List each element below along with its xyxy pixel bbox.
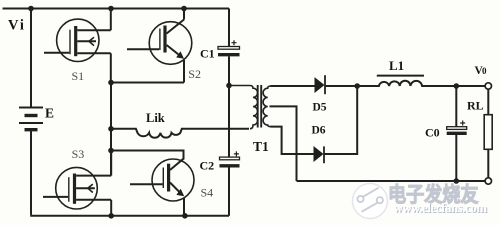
resistor RL: [484, 115, 492, 150]
svg-text:Vi: Vi: [8, 18, 26, 34]
wire secondary top to D5: [271, 85, 315, 87]
svg-text:C2: C2: [200, 159, 215, 173]
svg-text:D6: D6: [312, 125, 326, 137]
wire battery bottom lead: [30, 130, 32, 215]
capacitor C0: [447, 121, 467, 134]
wire RL top lead: [487, 89, 489, 114]
wire secondary center tap: [270, 106, 297, 181]
wire battery top lead: [30, 9, 32, 108]
wire C1 top lead: [228, 9, 230, 47]
wire S4 emitter drop: [183, 198, 185, 216]
terminal Vo negative: [485, 178, 491, 184]
svg-text:RL: RL: [467, 99, 484, 113]
transformer T1 primary: [229, 86, 258, 129]
wire D6 cathode riser: [324, 86, 357, 154]
wire C0 bottom lead: [455, 135, 457, 181]
wire D5 cathode to node: [325, 85, 357, 87]
wire bottom rail: [30, 215, 229, 217]
node C0 bottom junction: [454, 178, 460, 184]
svg-text:Lik: Lik: [146, 111, 165, 125]
wire S3 source drop: [110, 200, 112, 216]
wire bottom output rail: [297, 180, 486, 182]
node top-rail S1 drain junction: [108, 6, 114, 12]
wire S2 collector riser: [183, 9, 185, 20]
node midpoint junction: [108, 80, 114, 86]
battery E: [19, 108, 43, 130]
wire bridge midpoint horizontal: [111, 82, 184, 84]
capacitor C1: [218, 40, 240, 55]
svg-text:E: E: [45, 106, 54, 121]
diode D6: [314, 146, 325, 163]
transistor S2 (IGBT): [127, 20, 192, 65]
inductor Lik: [111, 129, 249, 138]
transformer T1 secondary: [263, 86, 270, 127]
transistor S4 (IGBT): [130, 159, 194, 201]
inductor L1: [357, 81, 485, 86]
node bottom rail S3 junction: [108, 213, 114, 219]
svg-text:0: 0: [482, 66, 487, 76]
inductor L1 core bar: [377, 75, 424, 77]
transistor S1 (MOSFET): [44, 19, 111, 61]
transformer T1 core: [258, 85, 262, 128]
wire C1 bottom to tap: [228, 56, 230, 85]
svg-text:C1: C1: [200, 47, 215, 61]
svg-text:S1: S1: [72, 69, 85, 83]
wire S1 drain riser: [110, 9, 112, 31]
svg-text:L1: L1: [389, 58, 404, 73]
diode D5: [315, 75, 326, 94]
node Lik junction: [108, 126, 114, 132]
svg-text:www.elecfans.com: www.elecfans.com: [394, 201, 488, 215]
wire S3 drain riser: [110, 151, 112, 176]
watermark logo circle: [353, 184, 388, 219]
node rectifier output junction: [354, 83, 360, 89]
wire C0 top lead: [455, 86, 457, 127]
terminal Vo positive: [485, 83, 491, 89]
node top-rail battery junction: [28, 6, 34, 12]
node S4 collector junction: [108, 148, 114, 154]
svg-text:C0: C0: [425, 126, 440, 140]
transistor S3 (MOSFET): [43, 167, 111, 209]
svg-text:T1: T1: [253, 139, 269, 154]
svg-text:S3: S3: [72, 147, 85, 161]
wire S2 emitter drop: [183, 60, 185, 83]
node top-rail S2 collector junction: [181, 6, 187, 12]
wire RL bottom lead: [487, 149, 489, 178]
wire S4 collector link: [111, 151, 184, 160]
wire left leg vertical: [110, 83, 112, 176]
wire C2 bottom lead: [228, 167, 230, 216]
wire capacitor leg vertical: [228, 86, 230, 158]
svg-text:S4: S4: [201, 185, 214, 199]
wire secondary bottom to D6: [271, 127, 314, 154]
node bottom rail S4 junction: [182, 213, 188, 219]
wire top rail: [3, 8, 230, 10]
capacitor C2: [220, 151, 240, 165]
svg-text:S2: S2: [188, 67, 201, 81]
node primary top tap: [226, 83, 232, 89]
svg-text:D5: D5: [313, 102, 327, 114]
wire S1 source drop: [110, 53, 112, 82]
node filter output junction: [454, 83, 460, 89]
